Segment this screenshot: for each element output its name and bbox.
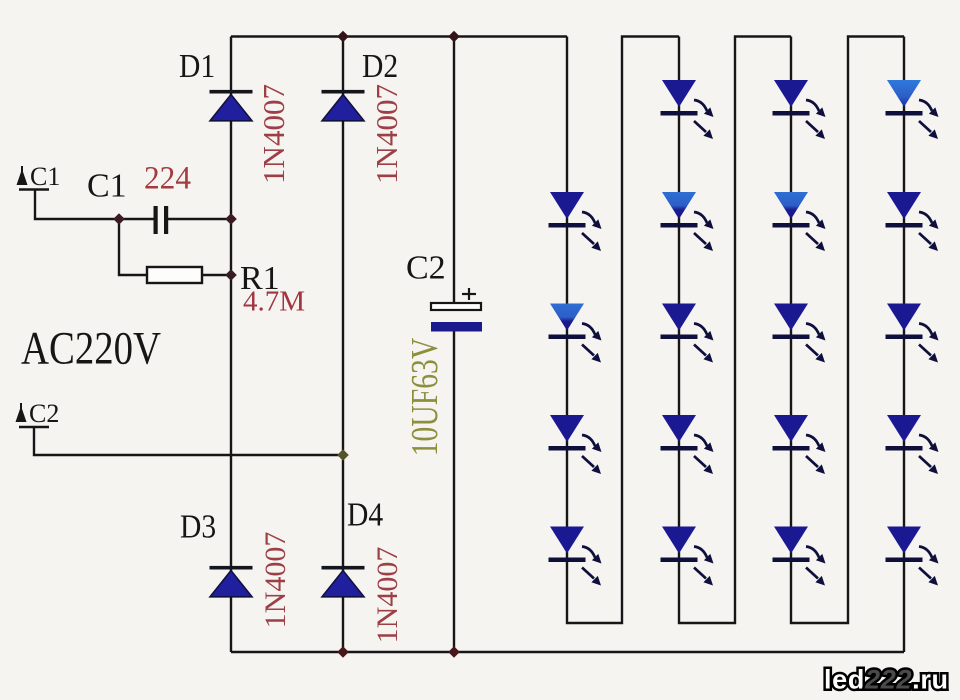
diode D4	[322, 566, 365, 597]
svg-text:1N4007: 1N4007	[369, 84, 404, 184]
label C2	[406, 250, 446, 287]
LED row4 col3	[773, 415, 826, 474]
wire: top positive rail	[231, 35, 567, 37]
svg-text:C1: C1	[87, 168, 127, 205]
LED row1 col2	[661, 80, 714, 139]
LED row5 col2	[661, 527, 714, 586]
capacitor C2	[431, 288, 482, 332]
label D3	[180, 508, 216, 545]
label AC220V	[21, 323, 161, 374]
svg-text:1N4007: 1N4007	[259, 532, 292, 629]
LED row3 col4	[886, 304, 939, 363]
svg-text:led222.ru: led222.ru	[824, 665, 948, 695]
LED row5 col1	[549, 527, 602, 586]
LED row4 col1	[549, 415, 602, 474]
wire: left bridge rail (D1/D3 column)	[230, 37, 232, 653]
svg-text:C1: C1	[30, 162, 60, 191]
LED row2 col2	[661, 192, 714, 251]
junction bottom rail at C2	[448, 646, 460, 658]
diode D2	[322, 90, 365, 121]
wire: AC2 lead down and right to D2/D4 midpoint	[34, 427, 343, 455]
svg-text:10UF63V: 10UF63V	[405, 337, 446, 456]
label 10UF63V of C2	[405, 337, 446, 456]
LED row5 col3	[773, 527, 826, 586]
diode D3	[210, 566, 253, 597]
label 1N4007 of D4	[371, 547, 404, 644]
wire: LED column 2	[679, 37, 791, 624]
svg-text:D3: D3	[180, 508, 216, 545]
junction bottom rail at D4	[337, 646, 349, 658]
LED row2 col1	[549, 192, 602, 251]
label 1N4007 of D3	[259, 532, 292, 629]
label C1	[87, 168, 127, 205]
junction AC2 to middle rail	[337, 449, 349, 461]
label 1N4007 of D2	[369, 84, 404, 184]
label 1N4007 of D1	[256, 84, 291, 184]
svg-text:224: 224	[144, 159, 191, 196]
wire: C1 right plate to left rail	[168, 218, 231, 220]
svg-text:C2: C2	[406, 250, 446, 287]
wire: C2 rail lower segment	[453, 331, 455, 652]
LED row4 col2	[661, 415, 714, 474]
LED row5 col4	[886, 527, 939, 586]
junction top rail at C2	[448, 31, 460, 43]
LED row3 col1	[549, 304, 602, 363]
label D1	[179, 47, 215, 84]
wire: middle bridge rail (D2/D4 column)	[342, 37, 344, 653]
wire: LED column 4	[903, 37, 905, 653]
diode D1	[210, 90, 253, 121]
LED row3 col2	[661, 304, 714, 363]
LED row2 col3	[773, 192, 826, 251]
wire: LED column 1	[567, 37, 679, 624]
watermark led222.ru	[824, 665, 948, 695]
wire: C2 rail upper segment	[453, 37, 455, 304]
junction node AC1/C1/R1	[113, 213, 125, 225]
label D2	[362, 47, 398, 84]
terminal AC2	[16, 399, 60, 428]
svg-text:D1: D1	[179, 47, 215, 84]
svg-text:1N4007: 1N4007	[371, 547, 404, 644]
label R1	[240, 260, 280, 297]
svg-text:C2: C2	[29, 399, 59, 428]
label 4.7M	[243, 286, 305, 318]
wire: AC1 lead down and right to node	[35, 190, 154, 220]
svg-text:D4: D4	[347, 496, 383, 533]
svg-text:4.7M: 4.7M	[243, 286, 305, 318]
svg-text:D2: D2	[362, 47, 398, 84]
LED row1 col3	[773, 80, 826, 139]
junction C1 to left rail	[225, 213, 237, 225]
wire: node down to R1 and across to left rail	[119, 219, 231, 275]
terminal AC1	[17, 162, 61, 191]
resistor R1	[147, 267, 202, 283]
wire: bottom negative rail	[231, 651, 904, 653]
svg-text:1N4007: 1N4007	[256, 84, 291, 184]
label 224	[144, 159, 191, 196]
wire: LED column 3	[791, 37, 904, 624]
junction R1 to left rail	[225, 269, 237, 281]
capacitor C1 plates	[154, 206, 169, 234]
svg-text:AC220V: AC220V	[21, 323, 161, 374]
LED row1 col4	[886, 80, 939, 139]
LED row3 col3	[773, 304, 826, 363]
LED row2 col4	[886, 192, 939, 251]
label D4	[347, 496, 383, 533]
junction top rail at D2	[337, 31, 349, 43]
LED row4 col4	[886, 415, 939, 474]
